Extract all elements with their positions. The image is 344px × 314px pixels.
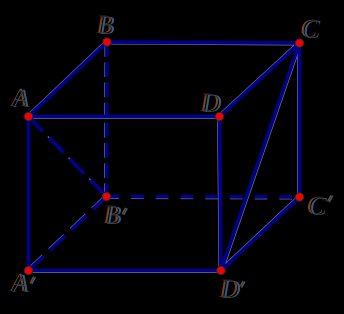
gray edge shadows for dashed wires bbox=[27, 42, 299, 269]
wire AB' gray edge bbox=[27, 115, 105, 195]
label D' prime bbox=[240, 282, 245, 287]
wire DA gray edge bbox=[29, 117, 220, 119]
wire AB' dashed bbox=[29, 117, 107, 197]
label A bbox=[11, 85, 27, 111]
prime marks (drawn as ticks) bbox=[30, 196, 332, 287]
wire AA' bbox=[27, 117, 31, 271]
wire CD' diagonal bbox=[221, 43, 300, 271]
node B' bbox=[102, 192, 111, 201]
wire A'B' gray edge bbox=[27, 195, 105, 269]
vertex dots bbox=[24, 38, 304, 275]
wire DD' bbox=[220, 117, 222, 271]
wire DA bbox=[29, 115, 220, 119]
wire CD bbox=[220, 43, 300, 117]
label B' bbox=[103, 202, 119, 228]
wire A'D' gray edge bbox=[29, 271, 222, 273]
wire B'C' dashed bbox=[107, 195, 300, 199]
wire CC' bbox=[298, 43, 302, 197]
wire D'C' gray edge bbox=[220, 196, 299, 270]
label C bbox=[300, 16, 317, 42]
label B bbox=[96, 12, 112, 38]
wire AB gray edge bbox=[27, 41, 106, 116]
wire BB' dashed bbox=[105, 42, 109, 197]
wire BC bbox=[107, 42, 300, 43]
wire AB bbox=[29, 42, 108, 117]
gray edge shadows for solid wires bbox=[27, 41, 301, 273]
label A' bbox=[10, 270, 26, 296]
wire BC gray edge bbox=[107, 44, 300, 45]
node A' bbox=[24, 266, 33, 275]
solid edges bbox=[29, 42, 300, 271]
wire CD gray edge bbox=[218, 42, 298, 116]
label D' bbox=[219, 276, 238, 302]
label C' prime bbox=[328, 196, 333, 202]
wire BB' gray edge bbox=[104, 42, 107, 197]
dashed edges bbox=[29, 42, 300, 271]
node D bbox=[215, 112, 224, 121]
wire DD' gray edge bbox=[218, 117, 220, 271]
wire D'C' bbox=[221, 197, 300, 271]
wire CD' gray edge bbox=[223, 44, 301, 272]
node C bbox=[295, 39, 304, 48]
label A' prime bbox=[30, 277, 35, 283]
node C' bbox=[295, 193, 304, 202]
wire B'C' gray edge bbox=[107, 197, 300, 200]
node B bbox=[103, 38, 112, 47]
label D bbox=[200, 90, 219, 116]
label C' bbox=[306, 193, 323, 219]
wire A'B' dashed bbox=[29, 197, 107, 271]
wire A'D' bbox=[29, 269, 222, 273]
node A bbox=[24, 112, 33, 121]
node D' bbox=[217, 266, 226, 275]
wire CC' gray edge bbox=[297, 43, 299, 197]
label B' prime bbox=[122, 208, 127, 214]
